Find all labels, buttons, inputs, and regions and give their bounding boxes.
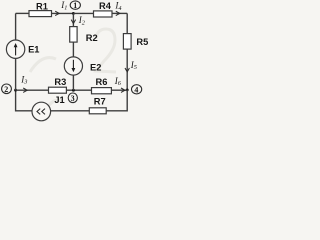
resistor R7 — [89, 108, 106, 114]
svg-text:R3: R3 — [54, 77, 66, 87]
svg-text:J1: J1 — [54, 95, 64, 105]
svg-text:4: 4 — [134, 85, 138, 94]
node 1 — [70, 1, 80, 10]
wire R7 to J1 — [51, 110, 90, 112]
resistor R2 — [70, 27, 77, 42]
svg-text:R2: R2 — [86, 33, 98, 43]
current arrow I5 — [125, 68, 129, 72]
wire node1 down to R2 — [72, 13, 74, 26]
wire node4 down to bottom-right corner — [106, 90, 127, 111]
svg-text:R6: R6 — [96, 77, 108, 87]
svg-text:R5: R5 — [136, 37, 148, 47]
current arrow I4 — [116, 11, 120, 15]
voltage source E1 — [6, 40, 24, 58]
junction node 3 — [72, 89, 75, 92]
svg-text:R7: R7 — [94, 96, 106, 106]
junction node 4 — [126, 88, 129, 91]
wire node2 to R3 — [16, 89, 49, 91]
wire R3 to node 3 to R6 — [66, 89, 91, 91]
wire J1 to bottom-left corner — [16, 90, 32, 111]
resistor R6 — [92, 88, 112, 94]
wire R1 to node 1 — [52, 12, 74, 14]
wire E2 to node 3 — [72, 75, 74, 90]
current arrow I3 — [23, 88, 27, 92]
wire R4 to top-right corner — [112, 12, 127, 14]
svg-text:R1: R1 — [36, 1, 48, 11]
node 4 — [132, 85, 142, 95]
resistor R3 — [49, 87, 67, 93]
wire R5 down to node 4 — [126, 49, 128, 90]
svg-text:1: 1 — [73, 1, 77, 10]
current arrow I2 — [71, 20, 75, 24]
current source J1 — [32, 102, 51, 121]
svg-text:R4: R4 — [99, 1, 112, 11]
wire node2 up to E1 — [15, 58, 17, 90]
junction node 2 — [14, 89, 17, 92]
wire R2 to E2 — [72, 42, 74, 57]
watermark curve big 2 — [30, 29, 116, 108]
wire node1 to R4 — [73, 12, 93, 14]
svg-text:E2: E2 — [90, 63, 101, 73]
svg-text:E1: E1 — [28, 45, 39, 55]
svg-text:2: 2 — [4, 85, 8, 94]
resistor R5 — [123, 34, 131, 50]
node 2 — [2, 84, 12, 94]
resistor R4 — [94, 11, 113, 17]
resistor R1 — [29, 11, 52, 17]
wire E1 up to top-left corner — [15, 13, 17, 40]
current arrow I1 — [55, 11, 59, 15]
current arrow I6 — [121, 88, 125, 92]
wire right side down to R5 — [126, 13, 128, 33]
wire top-left to R1 — [16, 12, 29, 14]
wire R6 to node 4 — [111, 89, 127, 91]
junction node 1 — [72, 12, 75, 15]
node 3 — [68, 93, 77, 103]
svg-text:3: 3 — [71, 94, 75, 103]
voltage source E2 — [64, 57, 82, 75]
